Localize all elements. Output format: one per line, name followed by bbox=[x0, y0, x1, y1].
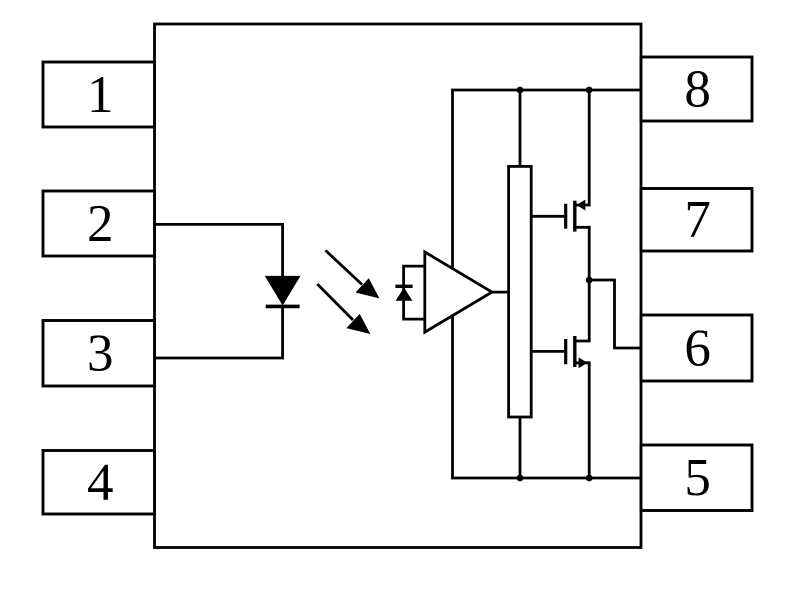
svg-text:6: 6 bbox=[684, 319, 711, 377]
transistor Q2 substrate arrow bbox=[579, 357, 588, 368]
IC body U1 outline bbox=[155, 24, 642, 548]
transistor Q2 channel bar bbox=[573, 336, 576, 367]
pin 8 bbox=[641, 57, 752, 121]
wire amp output to driver block bbox=[490, 291, 509, 294]
LED D1 cathode bar bbox=[266, 305, 300, 309]
junction node top rail left bbox=[517, 87, 524, 94]
transistor Q1 channel bar bbox=[573, 201, 576, 232]
wire LED cathode to pin3 bbox=[155, 306, 283, 358]
pin 6 bbox=[641, 315, 752, 381]
transistor Q2 source lead wire bbox=[575, 361, 591, 364]
junction node bottom rail right bbox=[586, 475, 593, 482]
svg-text:8: 8 bbox=[684, 60, 711, 118]
junction node top rail right bbox=[586, 87, 593, 94]
driver block R1 rectangle bbox=[509, 166, 532, 417]
junction node bottom rail left bbox=[517, 475, 524, 482]
wire midpoint node to pin 6 bbox=[589, 280, 641, 348]
op-amp U2 amplifier triangle bbox=[425, 252, 492, 332]
transistor Q2 drain lead wire bbox=[575, 340, 591, 343]
junction node midpoint bbox=[586, 277, 593, 284]
transistor Q1 substrate arrow bbox=[576, 200, 585, 211]
svg-text:1: 1 bbox=[87, 66, 114, 124]
wire driver top stub bbox=[519, 90, 522, 166]
svg-text:7: 7 bbox=[684, 191, 711, 249]
svg-text:3: 3 bbox=[87, 325, 114, 383]
wire pin2 to LED anode bbox=[155, 224, 283, 277]
pin 5 bbox=[641, 445, 752, 511]
transistor Q1 source lead wire bbox=[575, 226, 591, 229]
pin 7 bbox=[641, 189, 752, 252]
transistor Q1 gate lead wire bbox=[531, 215, 564, 218]
transistor Q2 gate lead wire bbox=[531, 350, 564, 353]
transistor Q1 gate bar bbox=[564, 204, 567, 229]
wire bottom rail to pin 5 bbox=[451, 477, 641, 480]
light arrow upper bbox=[326, 250, 380, 298]
transistor Q2 gate bar bbox=[564, 339, 567, 364]
wire driver bottom stub bbox=[519, 417, 522, 478]
pin 2 bbox=[43, 191, 155, 256]
photodiode D2 triangle bbox=[396, 288, 413, 301]
svg-text:2: 2 bbox=[87, 195, 114, 253]
wire inner box left vertical bbox=[451, 90, 454, 478]
light arrow lower bbox=[317, 284, 370, 334]
wire Q2 source to bottom rail bbox=[588, 363, 591, 478]
wire top rail to pin 8 bbox=[451, 89, 641, 92]
pin 4 bbox=[43, 451, 155, 515]
photodiode D2 cathode bar bbox=[395, 285, 412, 288]
transistor Q1 drain lead wire bbox=[575, 204, 591, 207]
wire pin8 rail to Q1 drain bbox=[588, 90, 591, 205]
pin 3 bbox=[43, 321, 155, 387]
photodiode bracket wires bbox=[404, 266, 425, 319]
pin 1 bbox=[43, 62, 155, 127]
svg-text:4: 4 bbox=[87, 454, 114, 512]
svg-text:5: 5 bbox=[684, 449, 711, 507]
LED D1 anode triangle bbox=[266, 276, 300, 304]
wire Q1 source to Q2 drain bbox=[588, 227, 591, 341]
